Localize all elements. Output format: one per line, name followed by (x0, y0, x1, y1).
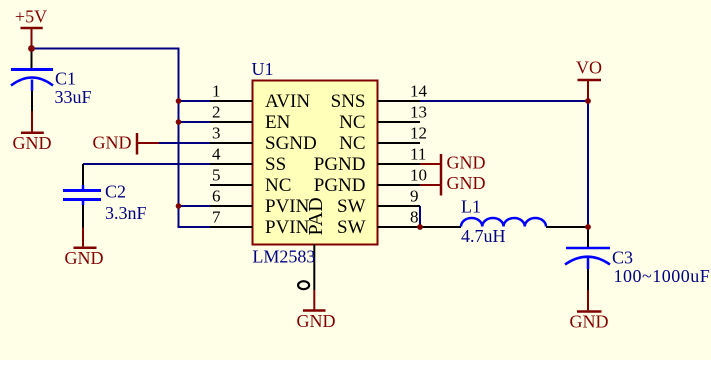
svg-text:PGND: PGND (314, 154, 366, 175)
svg-text:100~1000uF: 100~1000uF (614, 266, 711, 286)
svg-text:U1: U1 (252, 59, 274, 79)
svg-text:+5V: +5V (15, 7, 47, 27)
svg-text:7: 7 (212, 208, 221, 227)
svg-text:NC: NC (265, 175, 291, 196)
svg-text:C3: C3 (612, 248, 633, 268)
svg-text:10: 10 (410, 166, 427, 185)
svg-text:L1: L1 (461, 197, 481, 217)
svg-text:4: 4 (212, 145, 221, 164)
svg-text:NC: NC (339, 112, 365, 133)
svg-text:NC: NC (339, 133, 365, 154)
svg-text:PAD: PAD (305, 197, 327, 235)
svg-text:SGND: SGND (265, 133, 317, 154)
svg-text:13: 13 (410, 103, 427, 122)
svg-text:1: 1 (212, 82, 221, 101)
svg-text:11: 11 (410, 145, 426, 164)
svg-text:9: 9 (410, 187, 419, 206)
svg-text:SW: SW (337, 217, 366, 238)
svg-text:GND: GND (297, 311, 336, 331)
svg-text:GND: GND (570, 312, 609, 332)
svg-text:2: 2 (212, 103, 221, 122)
svg-text:GND: GND (447, 173, 486, 193)
svg-text:5: 5 (212, 166, 221, 185)
svg-text:12: 12 (410, 124, 427, 143)
svg-text:AVIN: AVIN (265, 91, 310, 112)
svg-text:C2: C2 (105, 182, 126, 202)
svg-text:SNS: SNS (331, 91, 366, 112)
svg-text:EN: EN (265, 112, 291, 133)
svg-text:SS: SS (265, 154, 286, 175)
svg-text:PVIN: PVIN (265, 217, 310, 238)
svg-text:GND: GND (13, 133, 52, 153)
svg-text:4.7uH: 4.7uH (461, 226, 506, 246)
svg-text:GND: GND (65, 248, 104, 268)
svg-text:3: 3 (212, 124, 221, 143)
svg-text:LM2583: LM2583 (252, 247, 315, 267)
svg-text:GND: GND (447, 153, 486, 173)
svg-text:C1: C1 (55, 69, 76, 89)
svg-text:VO: VO (576, 58, 602, 78)
svg-text:SW: SW (337, 196, 366, 217)
svg-text:GND: GND (93, 133, 132, 153)
svg-text:33uF: 33uF (55, 87, 92, 107)
svg-text:PGND: PGND (314, 175, 366, 196)
svg-text:14: 14 (410, 82, 428, 101)
svg-text:8: 8 (410, 208, 419, 227)
svg-text:6: 6 (212, 187, 221, 206)
svg-text:3.3nF: 3.3nF (105, 203, 147, 223)
svg-text:PVIN: PVIN (265, 196, 310, 217)
